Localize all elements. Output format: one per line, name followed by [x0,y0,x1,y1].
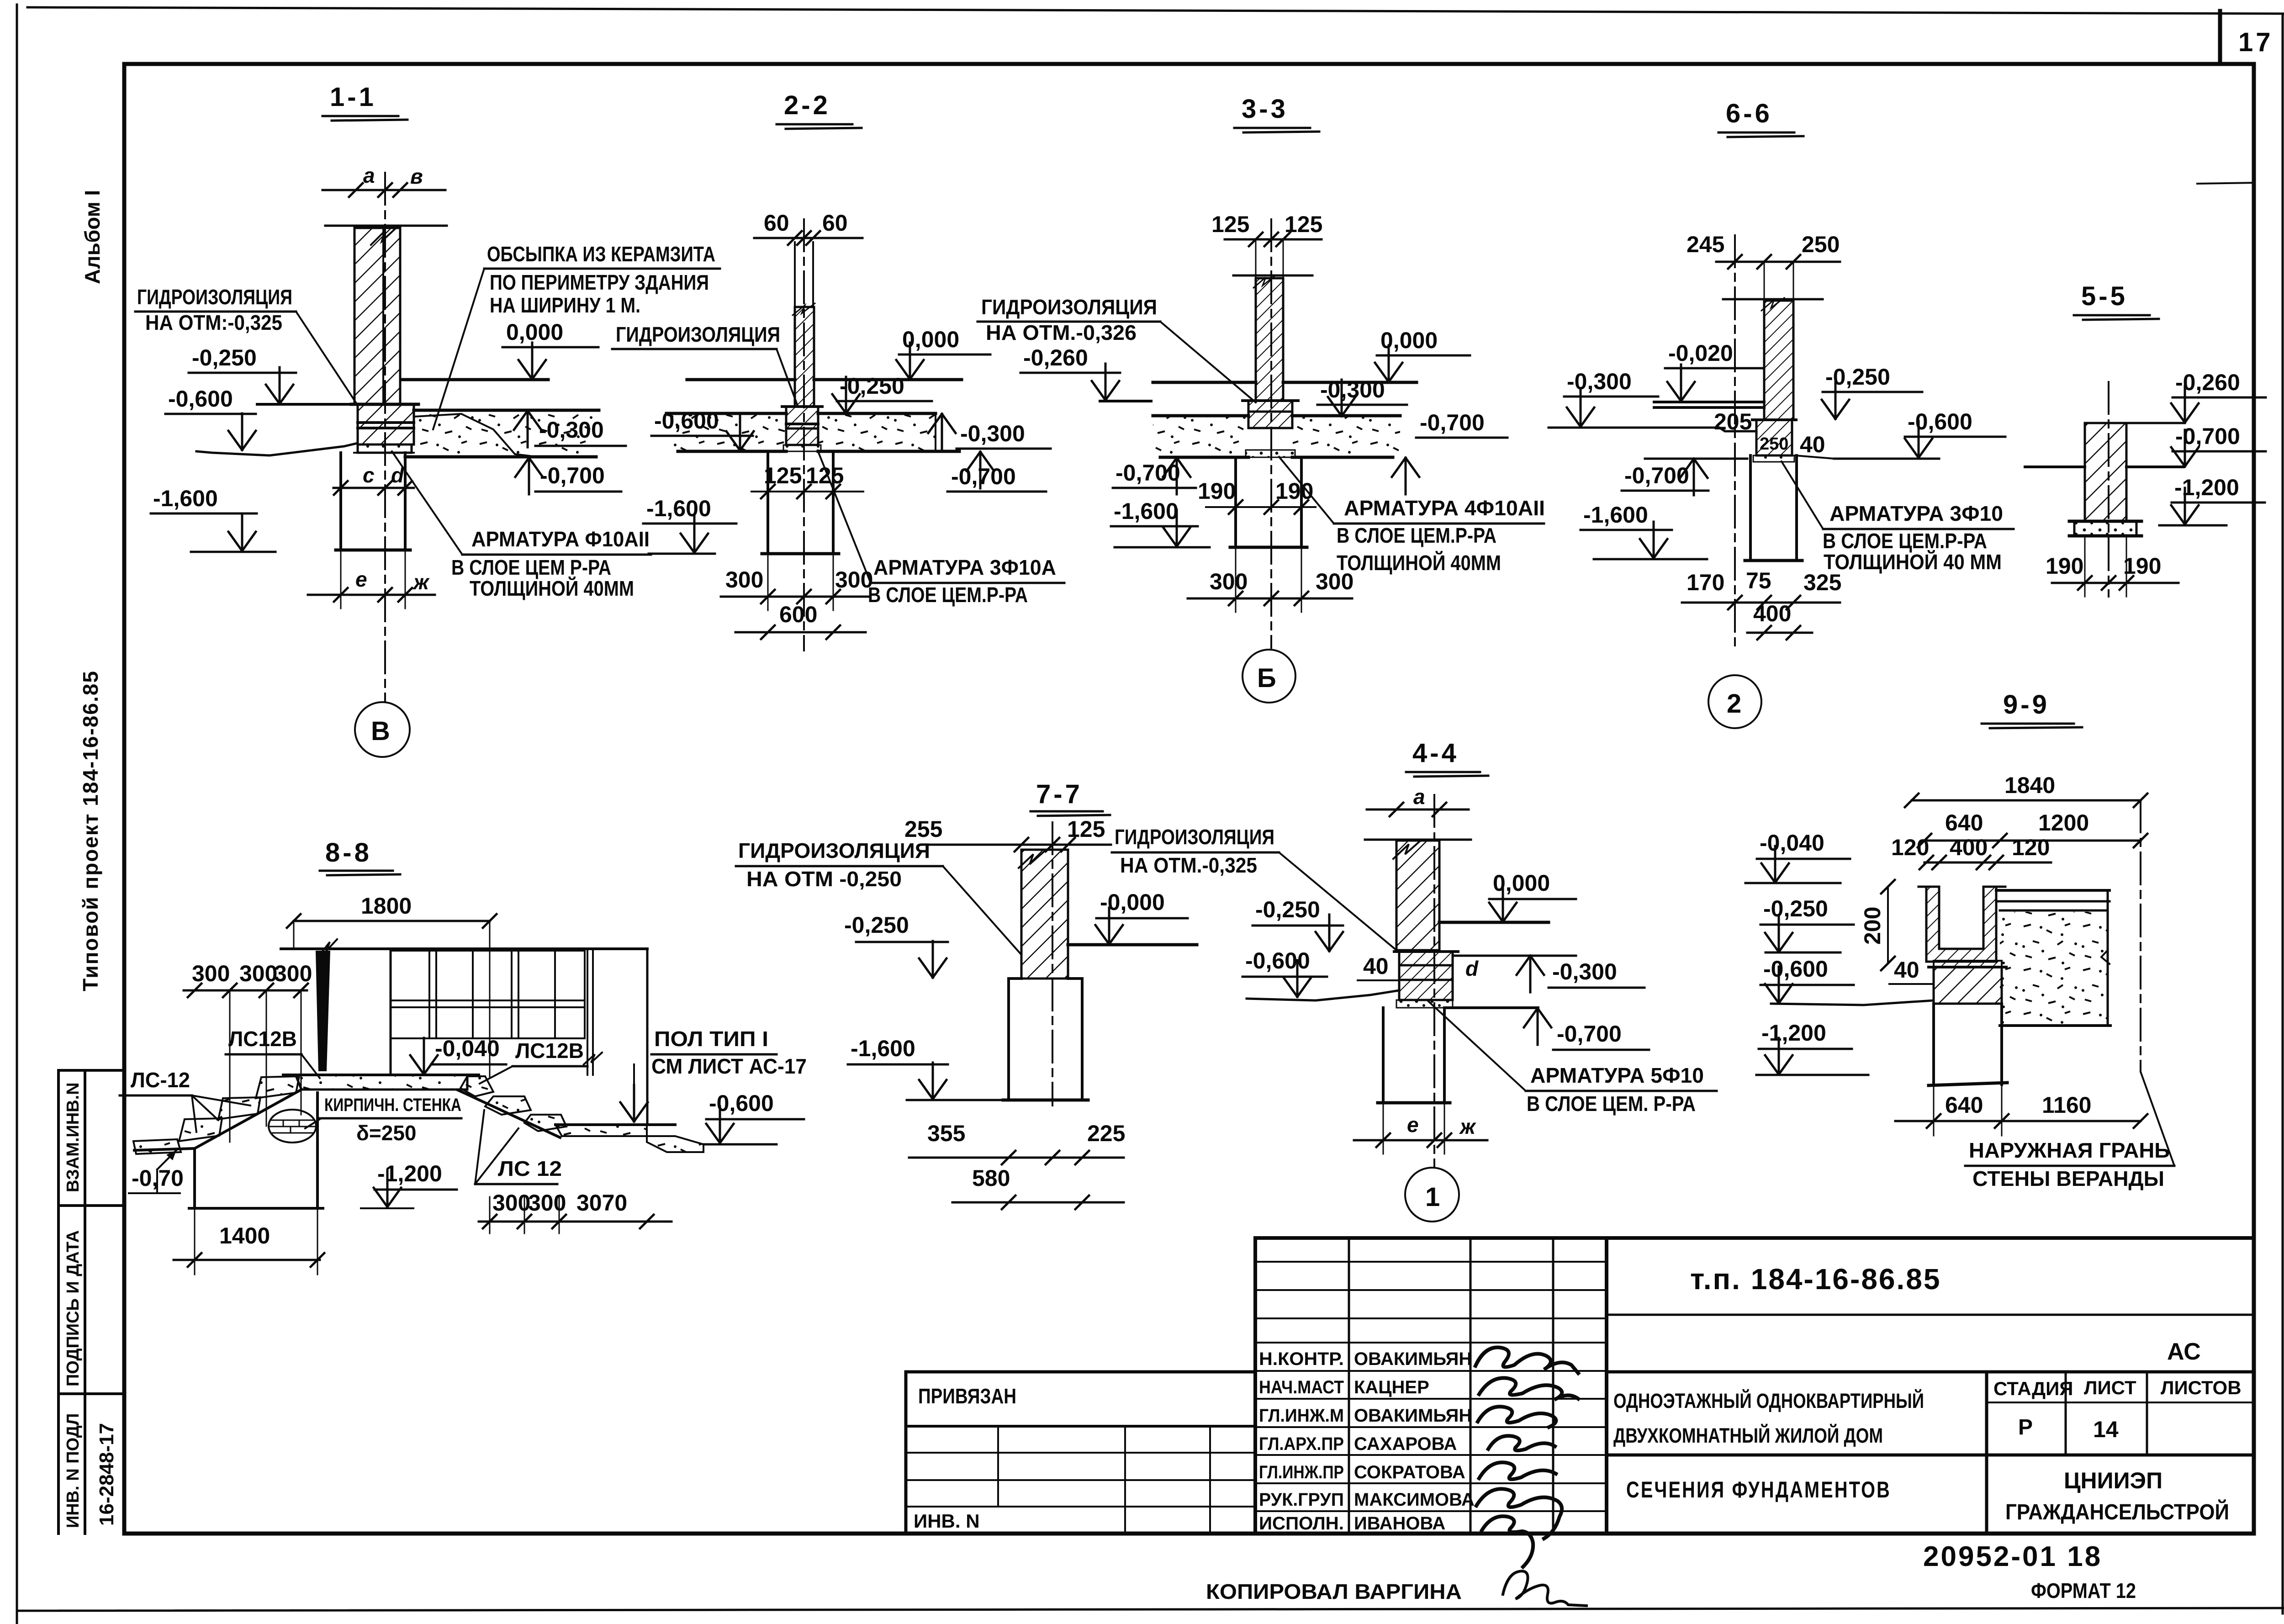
section 4-4 axis circle 1 [1405,1168,1459,1222]
svg-text:-1,600: -1,600 [851,1036,915,1061]
svg-text:Н.КОНТР.: Н.КОНТР. [1259,1349,1344,1369]
section 4-4 ground line left [1247,990,1399,1000]
svg-text:-0,600: -0,600 [654,408,719,434]
section 9-9 U channel hatched [1919,887,2005,962]
svg-text:1-1: 1-1 [330,82,376,112]
svg-text:ж: ж [1459,1115,1476,1138]
svg-text:40: 40 [1894,957,1919,983]
section 3-3 wall hatched [1253,275,1283,401]
section 8-8 label LS12V left [226,1027,320,1078]
svg-text:-0,040: -0,040 [1760,830,1824,856]
svg-text:СТЕНЫ ВЕРАНДЫ: СТЕНЫ ВЕРАНДЫ [1972,1167,2164,1190]
section 1-1 level -0,300 [514,411,626,447]
svg-text:АРМАТУРА 3Ф10: АРМАТУРА 3Ф10 [1829,502,2003,525]
svg-text:200: 200 [1860,907,1885,945]
svg-text:НАЧ.МАСТ: НАЧ.МАСТ [1259,1377,1344,1397]
section 8-8 dim 300 300 300 [184,961,312,1142]
section 3-3 level -0,300 [1317,377,1407,416]
section 7-7 dim 580 [952,1165,1124,1209]
section 8-8 level -1,200 [361,1161,457,1208]
section 2-2 slab left stippled [666,413,786,451]
section 8-8 wall top line [281,947,647,950]
section 8-8 level -0,600 [703,1090,804,1144]
section 7-7 wall hatched [1019,850,1068,979]
section 8-8 wall right verticals [584,949,647,1125]
svg-text:В СЛОЕ ЦЕМ. Р-РА: В СЛОЕ ЦЕМ. Р-РА [1527,1092,1696,1116]
section 2-2 level -0,300 right [928,414,1051,450]
section 2-2 leader gidroizolyaciya [612,323,798,406]
svg-text:3-3: 3-3 [1242,94,1288,124]
section 3-3 rebar label [1279,457,1545,575]
svg-text:НА ОТМ:-0,325: НА ОТМ:-0,325 [145,311,282,334]
svg-text:КОПИРОВАЛ ВАРГИНА: КОПИРОВАЛ ВАРГИНА [1206,1580,1462,1603]
svg-text:125: 125 [1067,816,1105,842]
svg-text:1840: 1840 [2004,772,2055,798]
svg-text:-0,250: -0,250 [840,373,904,399]
svg-text:ЛС12В: ЛС12В [228,1027,297,1051]
section 3-3 wall top edge [1233,275,1312,277]
section 2-2 level -0,250 [832,373,932,413]
section 4-4 leader gidroizolyaciya -0,325 [1112,825,1396,950]
section 7-7 level -1,600 [848,1036,1003,1100]
section 7-7 dim 255 125 [904,816,1111,852]
section 9-9 dim 640 1200 [1918,810,2147,847]
section 3-3 level 0,000 [1375,328,1470,382]
svg-text:ПО ПЕРИМЕТРУ ЗДАНИЯ: ПО ПЕРИМЕТРУ ЗДАНИЯ [490,270,709,294]
section 6-6 axis circle 2 [1708,675,1761,728]
section 9-9 dim 200 vertical [1860,880,1895,970]
svg-text:Типовой проект 184-16-86.85: Типовой проект 184-16-86.85 [79,670,102,991]
section 9-9 foundation [1929,1004,2007,1085]
section 8-8 label LS 12 [475,1110,562,1184]
svg-text:ИВАНОВА: ИВАНОВА [1354,1513,1445,1534]
svg-text:640: 640 [1945,1092,1983,1118]
section 2-2 floor line right [814,378,962,381]
section 8-8 label kirpichn stenka [305,1095,461,1145]
section 4-4 rebar label [1428,1001,1717,1116]
section 9-9 level -1,200 [1756,1020,1868,1075]
section 8-8 label LS12V right [480,1039,587,1084]
section 6-6 level -0,250 right [1822,364,1922,419]
section 2-2 level -0,700 right [947,452,1046,492]
section 8-8 level -0,040 [410,1036,506,1074]
section 3-3 level -0,700 left [1113,458,1196,494]
svg-text:СЕЧЕНИЯ ФУНДАМЕНТОВ: СЕЧЕНИЯ ФУНДАМЕНТОВ [1626,1477,1891,1502]
section 4-4 axis line [1433,795,1435,1168]
svg-text:-0,700: -0,700 [1624,463,1689,488]
svg-text:225: 225 [1087,1121,1125,1146]
svg-text:В СЛОЕ ЦЕМ.Р-РА: В СЛОЕ ЦЕМ.Р-РА [1823,529,1987,553]
svg-text:-1,600: -1,600 [1583,502,1648,528]
section 3-3 dim 190 190 [1198,478,1316,514]
section 9-9 level -0,040 [1745,830,1850,883]
section 4-4 foundation [1378,1008,1450,1103]
section 4-4 level -0,300 right [1453,956,1644,992]
section 8-8 lower floor band right stippled [555,1125,703,1152]
title block outer top line [1255,1236,2254,1240]
section 3-3 dim 125 125 [1211,212,1322,246]
section 5-5 level -1,200 [2159,475,2265,525]
section 4-4 wall top edge [1365,839,1471,841]
svg-text:2: 2 [1727,689,1744,719]
svg-text:ТОЛЩИНОЙ 40ММ: ТОЛЩИНОЙ 40ММ [470,577,634,600]
svg-text:-1,200: -1,200 [1761,1020,1826,1046]
section 9-9 axis dashdot right [2140,800,2141,1072]
svg-text:5-5: 5-5 [2081,281,2128,311]
svg-text:ИНВ. N ПОДЛ: ИНВ. N ПОДЛ [63,1413,83,1528]
section 1-1 level -0,250 [189,345,296,404]
svg-text:-1,600: -1,600 [1114,498,1179,524]
svg-text:190: 190 [2123,553,2161,579]
svg-text:20952-01 18: 20952-01 18 [1923,1541,2102,1572]
section 4-4 axis label a [1367,785,1469,816]
svg-text:НА ОТМ.-0,326: НА ОТМ.-0,326 [986,321,1137,344]
section 6-6 level -0,300 [1564,369,1658,427]
svg-text:640: 640 [1945,810,1983,836]
section 7-7 floor line right [1068,943,1197,947]
svg-text:300: 300 [239,961,277,986]
section 3-3 floor line left [1153,381,1256,384]
svg-text:-0,700: -0,700 [1420,410,1485,435]
section 3-3 level -0,700 right [1392,410,1507,494]
svg-text:3070: 3070 [576,1190,627,1216]
svg-text:9-9: 9-9 [2003,690,2050,719]
svg-text:a: a [1413,785,1425,809]
tp number big cell [1607,1263,2254,1315]
section 1-1 axis line [384,173,386,701]
section 1-1 dim c d [333,463,414,495]
svg-text:ФОРМАТ 12: ФОРМАТ 12 [2031,1579,2136,1603]
section 3-3 foundation [1230,457,1307,547]
section 6-6 wall top edge [1723,298,1823,301]
svg-text:ОДНОЭТАЖНЫЙ ОДНОКВАРТИРНЫЙ: ОДНОЭТАЖНЫЙ ОДНОКВАРТИРНЫЙ [1613,1389,1924,1412]
svg-text:75: 75 [1746,568,1771,593]
svg-text:РУК.ГРУП: РУК.ГРУП [1259,1490,1344,1510]
section 5-5 sole plate stippled [2069,521,2141,536]
svg-text:-0,040: -0,040 [435,1036,500,1061]
section 9-9 footing head hatched [1929,961,2006,1004]
svg-text:ЛИСТОВ: ЛИСТОВ [2161,1377,2242,1398]
section 4-4 wall hatched [1393,841,1439,950]
section 6-6 double floor line [1654,402,1764,407]
section 3-3 floor line right [1283,381,1417,384]
svg-text:-0,700: -0,700 [1557,1021,1622,1047]
section 6-6 axis line [1734,235,1736,649]
svg-text:245: 245 [1687,232,1724,257]
section 7-7 title [1031,779,1110,816]
name table role labels [1259,1349,1344,1534]
section 1-1 floor line right 0.000 [401,378,548,381]
section 5-5 title [2074,281,2159,320]
section 9-9 label 40 [1889,957,1934,984]
section 1-1 title [323,82,407,121]
svg-text:16-2848-17: 16-2848-17 [95,1423,118,1526]
section 4-4 label 40 [1358,953,1399,980]
sidebar boxes [58,1069,124,1072]
section 1-1 dim e zh [308,550,435,608]
svg-text:КАЦНЕР: КАЦНЕР [1354,1377,1429,1397]
section 9-9 level -0,250 [1761,896,1854,952]
svg-text:60: 60 [822,210,848,236]
section 1-1 keramzit slab stippled [405,410,599,457]
section 4-4 wall head hatched [1394,952,1458,1000]
sheet number box 17 [2218,11,2222,64]
svg-text:e: e [1407,1113,1419,1137]
section 9-9 level -0,600 [1761,956,1854,1003]
section 1-1 mortar strip with rebar dots [354,444,414,453]
svg-text:НА ОТМ -0,250: НА ОТМ -0,250 [746,867,902,891]
svg-text:4-4: 4-4 [1412,738,1459,768]
svg-text:В СЛОЕ ЦЕМ.Р-РА: В СЛОЕ ЦЕМ.Р-РА [868,583,1028,607]
svg-text:-0,700: -0,700 [540,463,605,488]
svg-text:300: 300 [835,567,873,592]
section 9-9 veranda slab double top lines [1996,890,2110,910]
section 2-2 level -0,600 left [651,408,754,450]
section 7-7 leader gidroizolyaciya na otm -0,250 [736,839,1021,955]
section 3-3 leader gidroizolyaciya na otm -0,326 [978,295,1256,402]
svg-text:ПОЛ ТИП I: ПОЛ ТИП I [654,1027,768,1051]
svg-text:1: 1 [1425,1182,1443,1212]
section 6-6 foundation [1745,455,1802,561]
kopiroval signature [1503,1571,1586,1606]
svg-text:ТОЛЩИНОЙ 40 ММ: ТОЛЩИНОЙ 40 ММ [1824,550,2002,574]
section 7-7 dim 355 225 [909,1121,1125,1164]
section 1-1 level -1,600 [151,486,275,552]
section 5-5 level -0,700 [2171,423,2266,466]
svg-text:40: 40 [1363,953,1389,979]
svg-text:-0,600: -0,600 [709,1090,774,1116]
svg-text:60: 60 [764,210,789,236]
section 2-2 title [777,90,862,129]
svg-text:-0,600: -0,600 [168,386,233,412]
section 4-4 level -0,700 right [1524,1008,1649,1050]
svg-text:ГЛ.ИНЖ.М: ГЛ.ИНЖ.М [1259,1406,1344,1426]
svg-text:ГИДРОИЗОЛЯЦИЯ: ГИДРОИЗОЛЯЦИЯ [1115,825,1274,849]
svg-text:170: 170 [1687,570,1724,595]
section 8-8 wall left edge of window [390,949,392,1075]
section 3-3 level -0,260 (left of section) [1020,345,1151,401]
section 5-5 level -0,260 [2171,370,2266,423]
svg-text:ж: ж [412,570,430,594]
svg-text:КИРПИЧН. СТЕНКА: КИРПИЧН. СТЕНКА [324,1095,461,1115]
section 6-6 wall hatched [1761,298,1793,420]
svg-text:ГИДРОИЗОЛЯЦИЯ: ГИДРОИЗОЛЯЦИЯ [616,323,780,346]
svg-text:Р: Р [2018,1415,2033,1439]
svg-text:Альбом I: Альбом I [80,190,104,284]
title area header line [1607,1370,2254,1374]
svg-text:300: 300 [528,1190,566,1216]
svg-text:-0,250: -0,250 [1255,897,1320,922]
svg-text:АРМАТУРА Ф10АII: АРМАТУРА Ф10АII [471,527,650,551]
section 6-6 wall head hatched small [1752,420,1796,455]
section 3-3 slab right stippled [1292,416,1400,457]
svg-text:δ=250: δ=250 [356,1121,417,1145]
section 4-4 level 0,000 right [1489,870,1576,922]
section 9-9 dim 640 1160 [1895,1084,2147,1136]
svg-text:СМ ЛИСТ АС-17: СМ ЛИСТ АС-17 [651,1054,807,1078]
svg-text:355: 355 [927,1121,965,1146]
svg-text:-0,600: -0,600 [1908,409,1972,434]
section 6-6 level -1,600 [1581,502,1707,559]
svg-text:в: в [410,164,423,188]
svg-text:1160: 1160 [2042,1092,2091,1118]
svg-text:400: 400 [1950,835,1988,860]
section 2-2 axis line [803,219,805,651]
section 9-9 ground line left [1771,1000,1934,1005]
svg-text:ГИДРОИЗОЛЯЦИЯ: ГИДРОИЗОЛЯЦИЯ [738,839,930,862]
section 6-6 rebar label [1782,461,2014,574]
section 2-2 foundation [762,451,839,554]
svg-text:ДВУХКОМНАТНЫЙ ЖИЛОЙ ДОМ: ДВУХКОМНАТНЫЙ ЖИЛОЙ ДОМ [1613,1424,1883,1447]
svg-text:255: 255 [904,816,942,842]
section 4-4 slab bottom line right [1444,1006,1538,1009]
section 4-4 level -0,250 left [1253,897,1343,951]
section 5-5 axis line [2108,382,2110,597]
section 1-1 wall top edge [325,225,447,227]
svg-text:ИНВ. N: ИНВ. N [914,1510,980,1532]
section 4-4 title [1406,738,1488,777]
svg-text:1400: 1400 [219,1223,270,1248]
section 2-2 level -1,600 [643,496,736,554]
section 2-2 slab right stippled [818,413,959,451]
section 8-8 dim 1800 [287,893,497,1078]
svg-text:-0,300: -0,300 [1552,959,1617,984]
section 6-6 level -0,600 right [1905,409,2005,458]
svg-text:ГИДРОИЗОЛЯЦИЯ: ГИДРОИЗОЛЯЦИЯ [137,285,292,309]
section 9-9 title [1982,690,2082,728]
svg-text:0,000: 0,000 [506,319,563,345]
svg-text:7-7: 7-7 [1036,779,1083,809]
svg-text:400: 400 [1753,601,1791,626]
section 1-1 foundation [336,453,410,550]
section 2-2 level 0,000 [896,327,990,379]
section 1-1 leader obsypka [433,242,720,429]
section 6-6 dim 170 75 325 [1682,568,1841,609]
stray scan line top right [2197,183,2255,184]
svg-text:ГЛ.ИНЖ.ПР: ГЛ.ИНЖ.ПР [1259,1462,1344,1482]
section 1-1 brick wall hatched [354,228,400,405]
section 1-1 axis circle V [355,702,410,757]
svg-text:ЛС12В: ЛС12В [515,1039,584,1063]
object name text [1613,1389,1924,1447]
section 8-8 level -0,70 left [129,1150,184,1193]
svg-text:17: 17 [2238,27,2273,57]
svg-text:300: 300 [725,567,763,592]
name table row lines [1255,1262,1607,1511]
section 8-8 label pol tip I [620,1027,807,1121]
svg-text:т.п. 184-16-86.85: т.п. 184-16-86.85 [1690,1263,1941,1296]
section 4-4 mortar strip [1396,1000,1453,1008]
section 1-1 leader gidroizolyaciya [135,285,357,404]
svg-text:300: 300 [192,961,230,986]
section 2-2 dim 60 60 [754,210,862,245]
section 6-6 label 40 [1795,432,1834,459]
svg-text:ПРИВЯЗАН: ПРИВЯЗАН [918,1384,1016,1408]
section 8-8 dim 1400 [174,1208,324,1275]
svg-text:Б: Б [1257,663,1279,693]
svg-text:1800: 1800 [361,893,412,919]
organization text [2005,1468,2229,1524]
section 1-1 ground line wavy [196,443,358,455]
section 6-6 ground line right [1834,458,1939,460]
section 3-3 extension lines above wall [1256,239,1283,278]
section 8-8 brick wall oval [269,1110,316,1143]
svg-text:250: 250 [1802,232,1840,257]
svg-text:МАКСИМОВА: МАКСИМОВА [1354,1490,1475,1510]
svg-text:ОВАКИМЬЯН: ОВАКИМЬЯН [1354,1349,1472,1369]
section 1-1 veranda floor line -0.250 [257,403,354,406]
svg-text:ПОДПИСЬ И ДАТА: ПОДПИСЬ И ДАТА [63,1230,83,1386]
svg-text:В СЛОЕ ЦЕМ Р-РА: В СЛОЕ ЦЕМ Р-РА [451,555,611,579]
svg-text:ОВАКИМЬЯН: ОВАКИМЬЯН [1354,1406,1472,1426]
svg-text:НА ОТМ.-0,325: НА ОТМ.-0,325 [1120,853,1257,877]
svg-text:300: 300 [274,961,312,986]
section 9-9 label naruzhnaya gran [1965,1072,2174,1190]
section 9-9 veranda slab stippled [2000,890,2110,1026]
section 5-5 dim 190 190 [2046,536,2178,597]
section 8-8 dim 300 300 3070 [479,1190,671,1233]
svg-text:ГИДРОИЗОЛЯЦИЯ: ГИДРОИЗОЛЯЦИЯ [981,295,1157,319]
section 3-3 axis circle B [1242,650,1295,703]
svg-text:300: 300 [1316,569,1353,594]
svg-text:-0,250: -0,250 [192,345,257,370]
section 5-5 ground lines [2025,466,2184,468]
svg-text:ИСПОЛН.: ИСПОЛН. [1259,1513,1344,1534]
svg-text:ЛС-12: ЛС-12 [131,1068,190,1092]
svg-text:НАРУЖНАЯ ГРАНЬ: НАРУЖНАЯ ГРАНЬ [1969,1138,2170,1162]
svg-text:d: d [1465,957,1479,980]
svg-text:-1,600: -1,600 [153,486,218,511]
section 9-9 dim 120 400 120 [1891,835,2051,869]
stadia list listov columns [1987,1372,2254,1534]
svg-text:-1,600: -1,600 [646,496,711,521]
section 8-8 landing slab stippled [283,1075,479,1090]
svg-text:125: 125 [1211,212,1249,237]
svg-text:ОБСЫПКА ИЗ КЕРАМЗИТА: ОБСЫПКА ИЗ КЕРАМЗИТА [487,242,715,266]
section 4-4 level -0,600 left [1242,948,1327,997]
section 1-1 axis labels a,b [323,164,445,197]
section 1-1 level 0,000 [502,319,598,379]
section 2-2 dim 300 300 [721,554,873,610]
svg-text:-0,260: -0,260 [1023,345,1088,370]
svg-text:АС: АС [2167,1338,2201,1365]
svg-text:-0,300: -0,300 [1567,369,1632,394]
svg-text:САХАРОВА: САХАРОВА [1354,1434,1457,1454]
svg-text:40: 40 [1800,432,1825,457]
section 6-6 dim 245 250 [1687,232,1840,269]
section 5-5 wall hatched [2085,423,2126,521]
section 6-6 dim 400 [1747,601,1812,640]
paper edge lines [27,7,2284,14]
section 8-8 window grid [392,951,585,1038]
svg-text:580: 580 [972,1165,1010,1191]
svg-text:ЛС 12: ЛС 12 [498,1157,562,1180]
svg-text:ЛИСТ: ЛИСТ [2084,1377,2136,1398]
svg-text:ВЗАМ.ИНВ.N: ВЗАМ.ИНВ.N [63,1082,83,1192]
section 2-2 rebar label [818,450,1064,607]
svg-text:120: 120 [1891,835,1929,860]
section 1-1 level -0,600 [165,386,256,450]
svg-text:-0,250: -0,250 [844,912,909,938]
section 2-2 floor line left [687,378,795,381]
section 6-6 extension lines [1764,262,1793,301]
svg-text:c: c [363,463,375,487]
svg-text:-0,020: -0,020 [1668,340,1733,366]
section 2-2 thin wall upper lines [795,242,813,307]
svg-text:-0,250: -0,250 [1763,896,1828,921]
section 5-5 wall top edge [2085,422,2185,424]
section 3-3 dim 300 300 [1188,547,1353,612]
